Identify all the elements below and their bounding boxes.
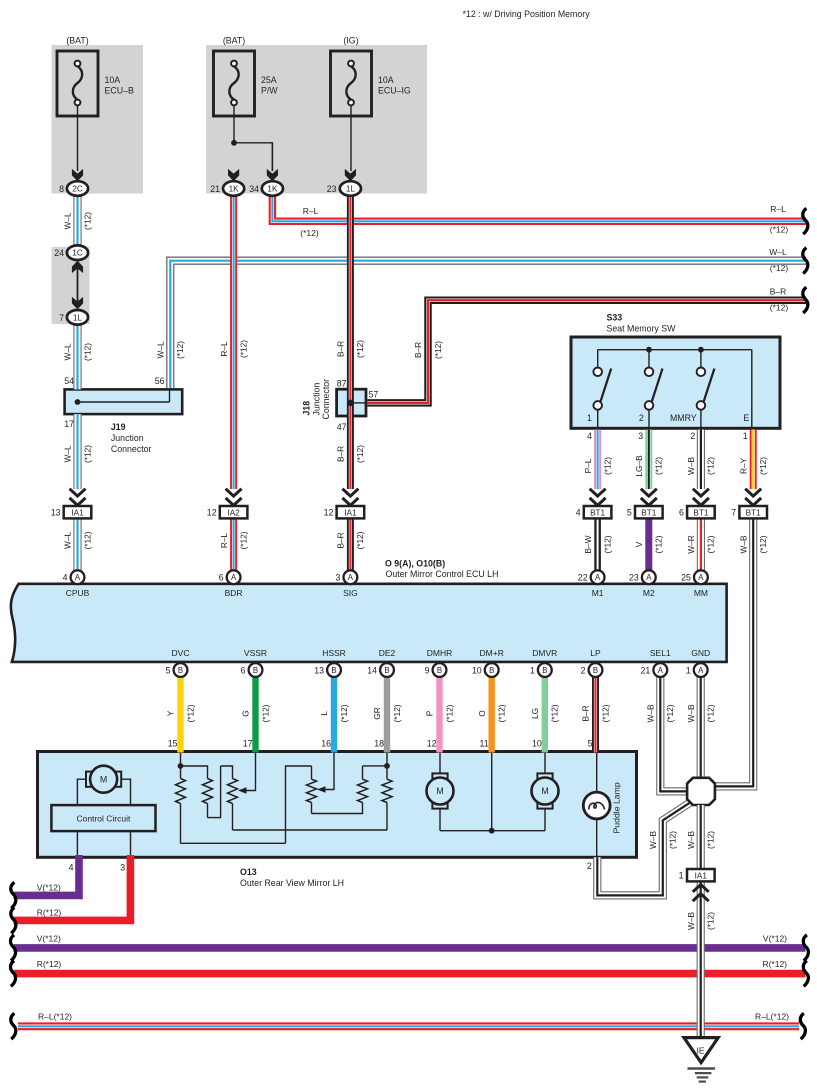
svg-text:(*12): (*12) (355, 340, 365, 358)
svg-text:1K: 1K (229, 185, 240, 194)
S33 label (607, 313, 677, 334)
wire fuse ECU-B stub2 (271, 143, 273, 171)
wire fuse P/W output (234, 105, 272, 171)
svg-text:J19: J19 (111, 422, 126, 432)
label R-L right edge (770, 204, 789, 234)
svg-text:24: 24 (54, 248, 64, 258)
J18 internal link (351, 402, 367, 404)
svg-text:25A: 25A (261, 75, 277, 85)
O13 control circuit box (51, 805, 155, 831)
svg-text:M: M (541, 786, 548, 796)
J19 internal link (78, 389, 170, 402)
svg-text:M2: M2 (643, 588, 655, 598)
svg-text:2: 2 (587, 861, 592, 871)
connector IA1 pin 13 (51, 506, 92, 518)
svg-text:(*12): (*12) (654, 457, 664, 475)
svg-text:Connector: Connector (321, 379, 331, 420)
ECU pin 10 bottom (472, 663, 499, 677)
svg-text:(*12): (*12) (706, 912, 716, 930)
ECU pin 21 bottom (641, 663, 668, 677)
connector BT1 pin 5 (627, 506, 663, 518)
svg-text:(*12): (*12) (706, 457, 716, 475)
svg-text:54: 54 (64, 376, 74, 386)
svg-text:(*12): (*12) (770, 302, 789, 312)
ECU pin 23 M2 (629, 570, 656, 584)
label GR (372, 704, 402, 722)
svg-text:1: 1 (679, 871, 684, 881)
wire R-L 1K pin21 to IA2 (230, 196, 237, 489)
svg-text:BT1: BT1 (641, 509, 656, 518)
O13 motor leads (77, 779, 130, 805)
svg-text:VSSR: VSSR (244, 648, 267, 658)
J19 internal junction (75, 399, 81, 405)
svg-text:(*12): (*12) (185, 704, 195, 722)
ECU top pin label CPUB (66, 588, 90, 598)
svg-text:(*12): (*12) (82, 212, 92, 230)
svg-text:A: A (646, 573, 652, 582)
svg-text:(*12): (*12) (82, 445, 92, 463)
wire P-L S33 pin1 to BT1 pin4 (594, 430, 601, 489)
svg-text:(*12): (*12) (706, 704, 716, 722)
wire W-B O13 pin2 to splice (597, 802, 690, 895)
S33 pin 4 (587, 431, 592, 441)
svg-text:12: 12 (324, 508, 334, 518)
svg-text:3: 3 (638, 431, 643, 441)
chevron into IA1 pin13 (70, 489, 86, 506)
wire B-R through J18 to IA1 (347, 389, 354, 489)
continuation mark R-L run left (11, 1013, 16, 1039)
O13 puddle lamp (583, 792, 610, 819)
svg-text:B–R: B–R (581, 705, 591, 721)
svg-text:W–B: W–B (686, 457, 696, 475)
label W-R (686, 535, 716, 553)
label R(*12) run left (37, 959, 62, 969)
svg-text:(*12): (*12) (82, 343, 92, 361)
wire W-L IA1 to ECU CPUB (73, 518, 81, 570)
svg-text:IA1: IA1 (695, 872, 708, 881)
O13 junction dot pin15 (178, 763, 184, 769)
svg-text:1: 1 (743, 431, 748, 441)
svg-text:21: 21 (210, 184, 220, 194)
O13 link bottom (181, 766, 312, 843)
wire Y DVC to O13 pin15 (177, 677, 183, 753)
svg-text:V(*12): V(*12) (763, 933, 787, 943)
svg-text:DE2: DE2 (379, 648, 396, 658)
wire W-B GND to splice (697, 677, 705, 778)
svg-text:(*12): (*12) (497, 704, 507, 722)
label R-L(*12) run left (38, 1011, 72, 1021)
svg-text:Junction: Junction (311, 383, 321, 416)
label P (425, 704, 455, 722)
O13 pin18 stub (386, 753, 388, 766)
svg-text:3: 3 (120, 863, 125, 873)
svg-text:G: G (241, 710, 251, 716)
svg-text:1L: 1L (346, 185, 356, 194)
svg-text:R–L: R–L (219, 341, 229, 357)
O13 pin 15 (168, 739, 178, 749)
svg-text:M1: M1 (592, 588, 604, 598)
svg-text:B–R: B–R (336, 532, 346, 548)
label W-B splice-IA1 (686, 831, 716, 849)
O13 pin 12 (427, 739, 437, 749)
connector oval 1K pin 21 (210, 181, 244, 196)
J18 label (302, 379, 332, 420)
label W-B O13 pin2 (648, 831, 678, 849)
svg-text:2: 2 (639, 413, 644, 423)
svg-text:DM+R: DM+R (480, 648, 504, 658)
svg-text:M: M (436, 786, 443, 796)
ECU top pin label M1 (592, 588, 604, 598)
S33 memory switches 1 2 MMRY (593, 350, 714, 429)
svg-text:13: 13 (314, 665, 324, 675)
label O (477, 704, 507, 722)
ECU bottom pin label DVC (172, 648, 190, 658)
wire R-L from 1K pin 34 to right edge (270, 196, 806, 224)
O13 junction dot pin18 (384, 763, 390, 769)
wire W-L J19 pin17 to IA1 (73, 414, 81, 489)
arrow into 1L pin23 (345, 169, 356, 181)
svg-text:R(*12): R(*12) (37, 907, 62, 917)
svg-text:(*12): (*12) (433, 341, 443, 359)
continuation mark R run left (10, 961, 15, 987)
svg-text:15: 15 (168, 739, 178, 749)
wire R(*12) O13 pin3 to left (14, 855, 131, 920)
svg-text:Junction: Junction (111, 433, 144, 443)
svg-text:A: A (698, 666, 704, 675)
svg-text:(*12): (*12) (668, 831, 678, 849)
wire O DM+R to O13 pin11 (489, 677, 495, 753)
J18 internal junction (347, 400, 354, 407)
label W-L IA1-CPUB (63, 531, 93, 549)
svg-text:IA1: IA1 (71, 509, 84, 518)
wire B-R(*12) from right edge to J18 pin 57 (368, 298, 807, 406)
svg-text:(*12): (*12) (665, 704, 675, 722)
svg-text:(*12): (*12) (602, 457, 612, 475)
label B-R IA1-SIG (336, 531, 366, 549)
chevron into BT1 pin6 (693, 489, 709, 506)
S33 bus junction 2 (698, 347, 704, 353)
continuation mark R upper (11, 907, 16, 933)
O13 control circuit pins (77, 831, 130, 856)
O13 DM+R stub (491, 753, 493, 831)
svg-text:(*12): (*12) (600, 704, 610, 722)
svg-text:O 9(A), O10(B): O 9(A), O10(B) (385, 559, 445, 569)
svg-text:W–B: W–B (646, 704, 656, 722)
svg-text:(*12): (*12) (392, 704, 402, 722)
harness background block 3 (52, 247, 90, 324)
ECU pin 4 CPUB (63, 570, 85, 584)
wire W-R BT1 to ECU MM (697, 518, 705, 570)
O13 link D-E (312, 803, 363, 814)
svg-text:(*12): (*12) (82, 531, 92, 549)
ECU bottom pin label HSSR (322, 648, 346, 658)
wire B-R IA1 to ECU SIG (347, 518, 354, 570)
svg-text:6: 6 (679, 508, 684, 518)
label R-Y (738, 457, 768, 475)
J18 pin 87 (337, 378, 347, 388)
label R-L top horizontal (300, 206, 319, 238)
O13 pin 16 (321, 739, 331, 749)
continuation mark V run left (10, 935, 15, 961)
label W-B GND (686, 704, 716, 722)
svg-text:DVC: DVC (172, 648, 190, 658)
svg-text:B–R: B–R (413, 342, 423, 358)
O13 pin 2 (587, 861, 592, 871)
label W-B BT1-7 (738, 535, 768, 553)
chevron into BT1 pin5 (641, 489, 657, 506)
svg-text:W–B: W–B (738, 535, 748, 553)
svg-text:B: B (384, 666, 389, 675)
svg-text:13: 13 (51, 508, 61, 518)
svg-text:Control Circuit: Control Circuit (76, 814, 130, 824)
fuse 10A ECU-IG (331, 36, 411, 116)
svg-text:*12 : w/ Driving Position Memo: *12 : w/ Driving Position Memory (463, 9, 591, 19)
O13 label (240, 867, 344, 888)
connector IA2 pin 12 (207, 506, 248, 518)
connector BT1 pin 7 (731, 506, 767, 518)
S33 E line (751, 350, 753, 429)
wire W-B S33 MMRY to BT1 pin6 (697, 430, 705, 489)
O13 pin 3 (120, 863, 125, 873)
svg-text:CPUB: CPUB (66, 588, 90, 598)
ECU top pin label SIG (343, 588, 358, 598)
svg-text:Outer Mirror Control ECU LH: Outer Mirror Control ECU LH (386, 569, 499, 579)
svg-text:(*12): (*12) (355, 531, 365, 549)
label P-L (583, 457, 613, 475)
svg-text:87: 87 (337, 378, 347, 388)
O13 pot-D wiper from HSSR (317, 753, 334, 793)
continuation mark R-L run right (800, 1013, 805, 1039)
svg-text:MM: MM (694, 588, 708, 598)
ECU bottom pin label DMVR (532, 648, 557, 658)
svg-text:Puddle Lamp: Puddle Lamp (612, 782, 622, 833)
junction connector J19 box (65, 389, 183, 414)
O13 pin 5 (588, 739, 593, 749)
wire R-L(*12) bottom horizontal run (18, 1023, 799, 1029)
label L (319, 704, 349, 722)
svg-text:B–R: B–R (336, 446, 346, 462)
svg-text:(*12): (*12) (300, 228, 319, 238)
svg-text:1: 1 (587, 413, 592, 423)
svg-text:P: P (425, 710, 435, 716)
connector oval 2C pin 8 (59, 181, 88, 196)
svg-text:34: 34 (249, 184, 259, 194)
arrow into 1K pin34 (267, 169, 278, 181)
continuation mark V upper (11, 882, 16, 908)
ECU pin 13 bottom (314, 663, 341, 677)
label W-L 1L-J19 (63, 343, 93, 361)
svg-text:HSSR: HSSR (322, 648, 346, 658)
label V(*12) run right (763, 933, 787, 943)
svg-text:17: 17 (243, 739, 253, 749)
J19 pin 17 (64, 419, 74, 429)
ECU pin 6 BDR (219, 570, 241, 584)
svg-text:5: 5 (588, 739, 593, 749)
label B-R 1L-J18 (336, 340, 366, 358)
svg-text:ECU–B: ECU–B (105, 85, 134, 95)
O13 pin 18 (374, 739, 384, 749)
svg-text:(*12): (*12) (602, 535, 612, 553)
svg-text:4: 4 (576, 508, 581, 518)
svg-text:E: E (743, 413, 749, 423)
svg-text:10A: 10A (105, 75, 121, 85)
wire L HSSR to O13 pin16 (331, 677, 337, 753)
S33 pin name 1 (587, 413, 592, 423)
junction fuse P/W branch (231, 140, 237, 146)
connector BT1 pin 4 (576, 506, 612, 518)
svg-text:GR: GR (372, 707, 382, 719)
svg-text:W–B: W–B (686, 831, 696, 849)
svg-text:(*12): (*12) (238, 340, 248, 358)
label V(*12) run left (37, 933, 61, 943)
ECU bottom pin label VSSR (244, 648, 267, 658)
svg-text:17: 17 (64, 419, 74, 429)
ECU bottom pin label DM+R (480, 648, 504, 658)
svg-text:R–L(*12): R–L(*12) (755, 1011, 789, 1021)
ECU bottom pin label LP (590, 648, 601, 658)
svg-text:B: B (542, 666, 547, 675)
svg-text:R–L: R–L (219, 532, 229, 548)
continuation mark R-L top right (803, 208, 808, 234)
wire LG-B S33 pin2 to BT1 pin5 (645, 430, 652, 489)
label V (634, 535, 664, 553)
label R-L 1K-IA2 (219, 340, 249, 358)
svg-text:V: V (634, 541, 644, 547)
svg-text:BT1: BT1 (693, 509, 708, 518)
label R-L(*12) run right (755, 1011, 789, 1021)
svg-text:LP: LP (590, 648, 601, 658)
svg-text:4: 4 (63, 573, 68, 583)
ECU pin 5 bottom (166, 663, 188, 677)
svg-text:W–R: W–R (686, 535, 696, 553)
svg-text:R–L: R–L (303, 206, 319, 216)
chevron into IA2 pin12 (226, 489, 242, 506)
ECU pin 1 bottom (686, 663, 708, 677)
fuse 10A ECU-B (57, 36, 134, 116)
svg-text:10: 10 (532, 739, 542, 749)
svg-text:R(*12): R(*12) (762, 959, 787, 969)
svg-text:47: 47 (337, 422, 347, 432)
label Y (166, 704, 196, 722)
wire P DMHR to O13 pin12 (436, 677, 442, 753)
label B-W (583, 535, 613, 553)
svg-text:5: 5 (166, 665, 171, 675)
svg-text:DMHR: DMHR (427, 648, 453, 658)
svg-text:GND: GND (691, 648, 710, 658)
label W-L J19-IA1 (63, 445, 93, 463)
svg-text:W–L: W–L (769, 247, 787, 257)
wire B-W BT1 to ECU M1 (594, 518, 601, 570)
svg-text:L: L (319, 711, 329, 716)
svg-text:(*12): (*12) (706, 831, 716, 849)
wire W-B SEL1 to splice (660, 677, 687, 792)
wire R-Y S33 E to BT1 pin7 (750, 430, 757, 489)
connector oval 1C pin 24 (54, 245, 88, 260)
ECU label (385, 559, 498, 580)
label W-B IA1-IE (686, 912, 716, 930)
label B-R right edge (770, 286, 789, 312)
svg-text:B: B (593, 666, 598, 675)
svg-text:7: 7 (731, 508, 736, 518)
svg-text:LG: LG (530, 708, 540, 719)
S33 pin 2 (690, 431, 695, 441)
continuation mark V run right (803, 935, 808, 961)
svg-text:O13: O13 (240, 867, 257, 877)
svg-text:1C: 1C (72, 249, 83, 258)
label B-R LP (581, 704, 611, 722)
svg-text:6: 6 (219, 573, 224, 583)
ground IE symbol (684, 1038, 718, 1063)
svg-text:(*12): (*12) (770, 225, 789, 235)
ECU bottom pin label DE2 (379, 648, 396, 658)
ECU pin 1 bottom (530, 663, 552, 677)
wire G VSSR to O13 pin17 (252, 677, 258, 753)
O13 DMVR motor stub (544, 753, 546, 831)
wire V(*12) horizontal run (14, 944, 806, 952)
ECU pin 9 bottom (425, 663, 447, 677)
svg-text:(IG): (IG) (343, 36, 358, 46)
svg-text:10A: 10A (378, 75, 394, 85)
svg-text:W–L: W–L (156, 341, 166, 358)
svg-text:4: 4 (69, 863, 74, 873)
O13 pin15 stub (180, 753, 182, 766)
O13 horizontal mirror motor M (427, 773, 454, 808)
O13 pin 11 (480, 739, 489, 749)
svg-text:A: A (658, 666, 664, 675)
svg-text:Y: Y (166, 710, 176, 716)
svg-text:R–Y: R–Y (738, 457, 748, 474)
ECU bottom pin label SEL1 (650, 648, 671, 658)
ECU top pin label BDR (225, 588, 243, 598)
svg-text:1: 1 (530, 665, 535, 675)
note *12 driving position memory (463, 9, 591, 19)
connector oval 1L pin 23 (327, 181, 361, 196)
O13 mirror fold motor M (86, 766, 121, 793)
svg-text:2: 2 (581, 665, 586, 675)
ECU bottom pin label DMHR (427, 648, 453, 658)
O13 junction dot DM+R (489, 828, 495, 834)
O13 resistor R-B (183, 766, 213, 804)
ECU pin 3 SIG (335, 570, 357, 584)
svg-text:1: 1 (686, 665, 691, 675)
svg-text:P/W: P/W (261, 85, 278, 95)
svg-text:23: 23 (327, 184, 337, 194)
svg-text:6: 6 (241, 665, 246, 675)
ECU pin 6 bottom (241, 663, 263, 677)
svg-text:5: 5 (627, 508, 632, 518)
O13 pot-C wiper from VSSR (238, 753, 256, 794)
wire fuse ECU-IG output (350, 105, 352, 171)
S33 pin name MMRY (670, 413, 697, 423)
svg-text:(*12): (*12) (706, 535, 716, 553)
S33 internal bus (598, 349, 752, 351)
junction connector J18 box (337, 389, 366, 416)
svg-text:12: 12 (207, 508, 217, 518)
svg-text:16: 16 (321, 739, 331, 749)
svg-text:J18: J18 (302, 401, 312, 416)
O13 pin 17 (243, 739, 253, 749)
label B-R J18-IA1 (336, 445, 366, 463)
svg-text:(*12): (*12) (339, 704, 349, 722)
svg-text:DMVR: DMVR (532, 648, 557, 658)
S33 pin 1 (743, 431, 748, 441)
wire W-L 1L to J19 pin 54 (73, 324, 81, 389)
svg-text:18: 18 (374, 739, 384, 749)
wire V BT1 to ECU M2 (645, 518, 652, 570)
svg-text:R(*12): R(*12) (37, 959, 62, 969)
wire W-L(*12) from right edge to J19 pin 56 (167, 257, 806, 389)
svg-text:LG–B: LG–B (634, 455, 644, 477)
